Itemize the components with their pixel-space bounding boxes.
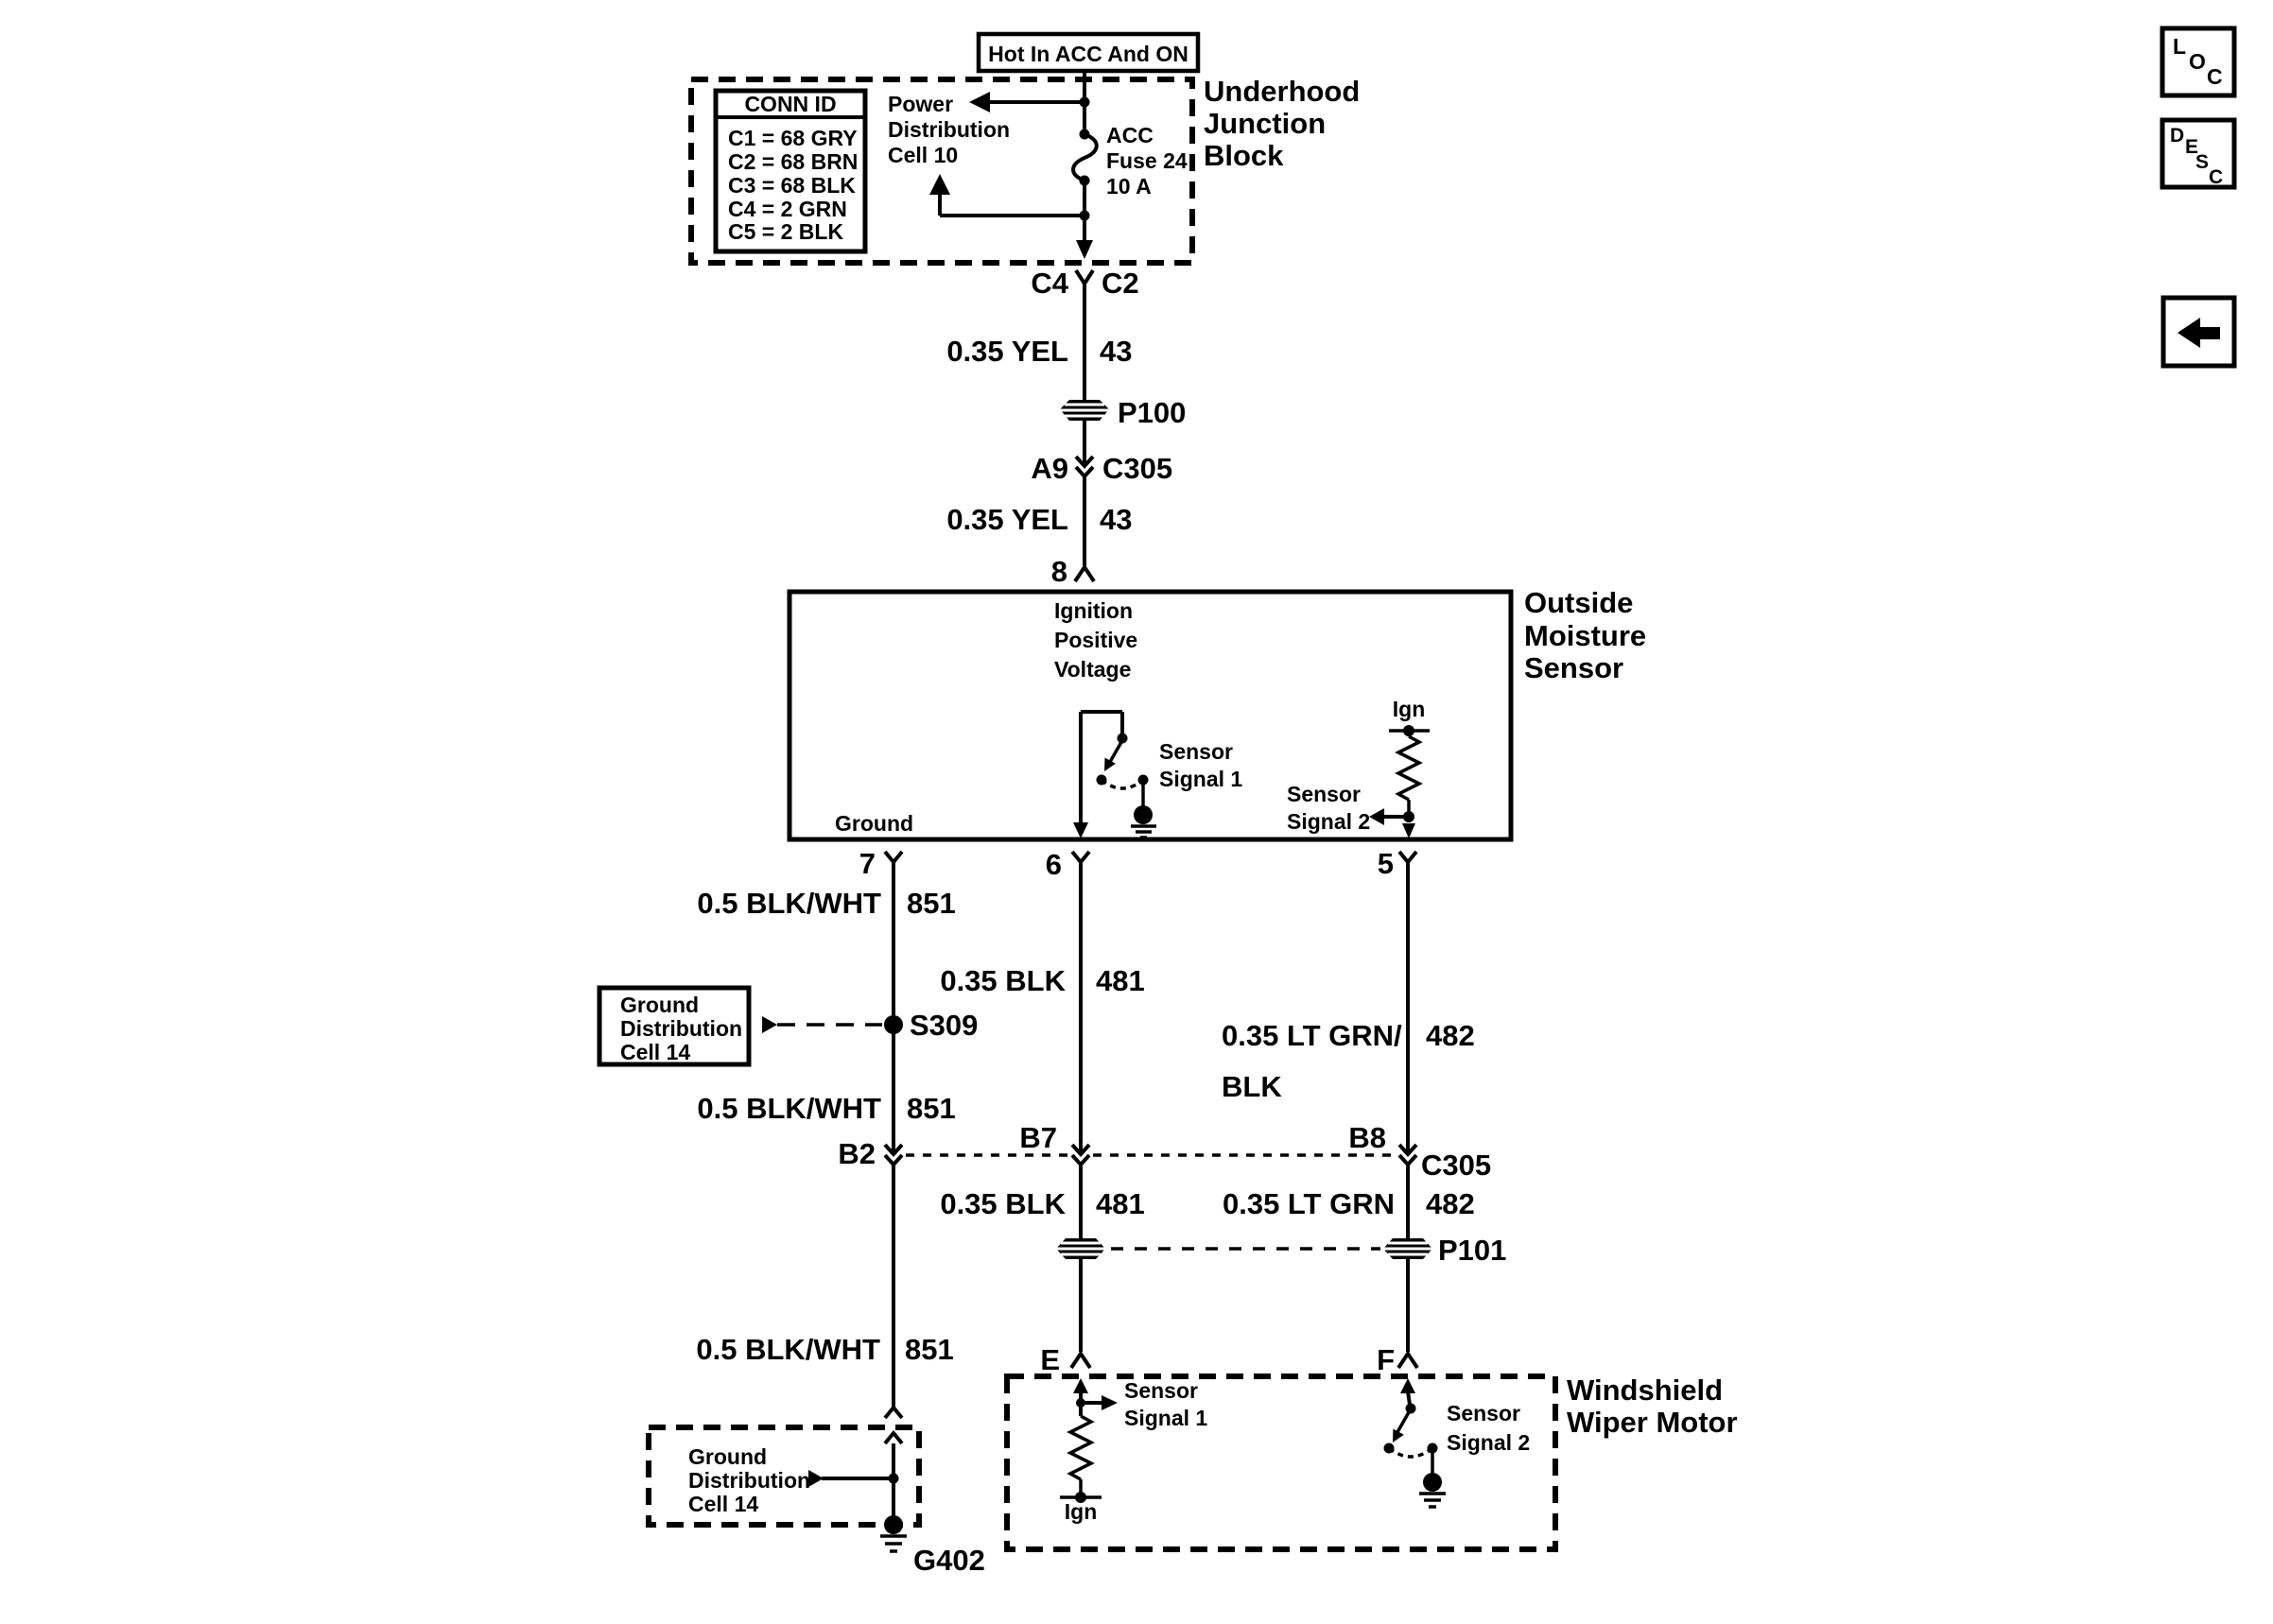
svg-text:B8: B8 [1348, 1121, 1386, 1154]
wire pin6 down [1079, 862, 1083, 1152]
wire C305 to pin 8 [1083, 476, 1086, 566]
svg-text:851: 851 [907, 887, 956, 920]
svg-text:Fuse 24: Fuse 24 [1106, 148, 1188, 173]
svg-text:Signal 2: Signal 2 [1447, 1430, 1530, 1455]
ground G402 [880, 1515, 985, 1577]
svg-text:B2: B2 [838, 1137, 876, 1170]
pin 7 [859, 847, 902, 880]
svg-text:C1 = 68 GRY: C1 = 68 GRY [728, 126, 858, 150]
back arrow icon [2163, 298, 2234, 366]
connector B2 [838, 1137, 902, 1170]
svg-text:Distribution: Distribution [688, 1468, 810, 1493]
svg-text:Cell 10: Cell 10 [888, 143, 958, 167]
svg-text:C: C [2209, 166, 2223, 188]
svg-text:F: F [1377, 1343, 1395, 1376]
svg-text:Signal 2: Signal 2 [1287, 809, 1370, 834]
wire from hot box into junction block [1083, 71, 1086, 134]
wiper sensor signal 1 label [1124, 1378, 1207, 1430]
svg-text:C305: C305 [1102, 452, 1172, 485]
wiper sensor signal 2 circuit [1384, 1378, 1447, 1507]
svg-text:C4: C4 [1031, 267, 1068, 300]
wire label 0.35 BLK 481 [940, 964, 1144, 997]
svg-text:Distribution: Distribution [620, 1016, 742, 1041]
LOC icon [2162, 28, 2234, 95]
wires below C305 row [892, 1165, 895, 1408]
wire fuse to junction [1083, 181, 1086, 216]
wire label 0.5 BLK/WHT 851 second [697, 1092, 955, 1125]
svg-text:B7: B7 [1019, 1121, 1057, 1154]
fuse ACC Fuse 24 10A [1073, 123, 1188, 199]
svg-text:Sensor: Sensor [1124, 1378, 1198, 1403]
svg-text:S: S [2195, 151, 2209, 173]
svg-text:D: D [2170, 125, 2184, 147]
svg-text:G402: G402 [913, 1544, 985, 1577]
wire label 0.35 YEL 43 second [946, 503, 1132, 536]
svg-text:E: E [1040, 1343, 1060, 1376]
svg-text:Ign: Ign [1393, 697, 1426, 721]
wire label 0.5 BLK/WHT 851 third [696, 1333, 953, 1366]
svg-text:8: 8 [1051, 555, 1067, 588]
connector B7 [1019, 1121, 1089, 1165]
svg-text:482: 482 [1426, 1019, 1475, 1052]
svg-text:43: 43 [1100, 503, 1132, 536]
svg-text:Ign: Ign [1065, 1499, 1098, 1524]
arrow to power distribution [969, 92, 1090, 112]
ground distribution cell 14 box lower [649, 1427, 919, 1525]
wire label 0.5 BLK/WHT 851 [697, 887, 955, 920]
svg-text:10 A: 10 A [1106, 174, 1152, 199]
wire label 0.35 LT GRN/ BLK 482 [1222, 1019, 1475, 1103]
svg-text:C4 = 2 GRN: C4 = 2 GRN [728, 197, 847, 221]
svg-text:C305: C305 [1421, 1149, 1491, 1182]
svg-text:Signal 1: Signal 1 [1159, 767, 1242, 791]
wiper sensor signal 2 label [1447, 1401, 1530, 1455]
underhood junction block label [1204, 75, 1360, 172]
wire P100 to C305 [1083, 421, 1086, 464]
grommet P101 left [1056, 1238, 1105, 1259]
svg-text:ACC: ACC [1106, 123, 1154, 147]
windshield wiper motor label [1567, 1373, 1738, 1439]
svg-text:851: 851 [905, 1333, 954, 1366]
svg-text:Positive: Positive [1054, 628, 1137, 652]
svg-text:Sensor: Sensor [1287, 782, 1361, 806]
connector B8 C305 [1348, 1121, 1491, 1182]
svg-text:C2: C2 [1102, 267, 1139, 300]
svg-text:481: 481 [1096, 964, 1145, 997]
pin 5 [1378, 847, 1416, 880]
wire label 0.35 BLK 481 second [940, 1187, 1144, 1220]
svg-text:0.35 YEL: 0.35 YEL [946, 503, 1068, 536]
connector C4/C2 [1031, 267, 1138, 300]
dashed connector line C305 [906, 1153, 1068, 1157]
svg-text:BLK: BLK [1222, 1070, 1282, 1103]
ground distribution cell 14 box upper [599, 988, 749, 1064]
pin E [1040, 1343, 1090, 1376]
svg-text:A9: A9 [1031, 452, 1068, 485]
wire pin5 down [1406, 862, 1410, 1152]
svg-text:Windshield: Windshield [1567, 1373, 1723, 1407]
splice S309 [762, 1009, 978, 1042]
svg-text:6: 6 [1046, 848, 1062, 881]
wiper sensor signal 1 circuit [1060, 1378, 1118, 1524]
svg-text:Ground: Ground [688, 1444, 767, 1469]
sensor signal 1 label [1159, 739, 1242, 791]
svg-text:CONN ID: CONN ID [744, 92, 836, 116]
svg-text:Power: Power [888, 92, 953, 116]
pin F [1377, 1343, 1417, 1376]
svg-text:0.5 BLK/WHT: 0.5 BLK/WHT [697, 887, 881, 920]
svg-text:Underhood: Underhood [1204, 75, 1360, 108]
connector A9/C305 [1031, 452, 1172, 485]
svg-text:C: C [2207, 64, 2223, 89]
up arrow branch to power distribution [929, 174, 1090, 221]
pin 6 [1046, 848, 1089, 881]
svg-text:Block: Block [1204, 139, 1284, 172]
svg-text:0.5 BLK/WHT: 0.5 BLK/WHT [696, 1333, 880, 1366]
switch output arrow to pin 6 [1073, 712, 1088, 838]
wire label 0.35 LT GRN 482 second [1223, 1187, 1475, 1220]
wire exiting junction block with down arrow [1076, 216, 1093, 259]
pin 8 connector [1051, 555, 1094, 588]
svg-text:C3 = 68 BLK: C3 = 68 BLK [728, 173, 856, 198]
CONN ID table [716, 91, 865, 251]
svg-text:Voltage: Voltage [1054, 657, 1131, 682]
svg-text:Moisture: Moisture [1524, 619, 1646, 652]
svg-text:Sensor: Sensor [1524, 651, 1623, 684]
connector inside ground box [885, 1433, 902, 1443]
grommet P100 [1060, 396, 1186, 429]
svg-text:0.35 LT GRN/: 0.35 LT GRN/ [1222, 1019, 1402, 1052]
svg-text:0.35 BLK: 0.35 BLK [940, 964, 1066, 997]
grommet P101 right [1383, 1234, 1506, 1267]
windshield wiper motor dashed box [1007, 1376, 1555, 1549]
svg-text:Sensor: Sensor [1447, 1401, 1520, 1425]
DESC icon [2162, 120, 2234, 188]
svg-text:851: 851 [907, 1092, 956, 1125]
svg-text:O: O [2189, 49, 2206, 74]
svg-text:Hot In ACC And ON: Hot In ACC And ON [988, 42, 1189, 66]
svg-text:481: 481 [1096, 1187, 1145, 1220]
svg-text:Signal 1: Signal 1 [1124, 1406, 1207, 1430]
svg-text:P100: P100 [1118, 396, 1186, 429]
power distribution cell 10 label [888, 92, 1010, 167]
svg-text:0.35 BLK: 0.35 BLK [940, 1187, 1066, 1220]
svg-text:C2 = 68 BRN: C2 = 68 BRN [728, 149, 858, 174]
outside moisture sensor box [789, 592, 1511, 839]
sensor signal 2 arrow [1369, 808, 1415, 838]
svg-text:5: 5 [1378, 847, 1394, 880]
ignition positive voltage label [1054, 598, 1137, 682]
svg-text:Cell 14: Cell 14 [620, 1040, 690, 1064]
svg-text:0.5 BLK/WHT: 0.5 BLK/WHT [697, 1092, 881, 1125]
dashed line between P101 grommets [1111, 1247, 1380, 1251]
svg-text:43: 43 [1100, 335, 1132, 368]
svg-text:Cell 14: Cell 14 [688, 1492, 758, 1516]
underhood junction block dashed box [691, 79, 1192, 263]
svg-text:Ground: Ground [620, 993, 699, 1017]
svg-text:C5 = 2 BLK: C5 = 2 BLK [728, 219, 843, 244]
svg-text:Outside: Outside [1524, 586, 1633, 619]
node Hot In ACC And ON box [979, 34, 1198, 71]
Ign terminal and resistor [1389, 697, 1430, 822]
outside moisture sensor label [1524, 586, 1646, 684]
svg-text:0.35 YEL: 0.35 YEL [946, 335, 1068, 368]
sensor signal 2 label [1287, 782, 1370, 834]
wire pin7 down [892, 862, 895, 1152]
svg-text:P101: P101 [1438, 1234, 1506, 1267]
svg-text:Ground: Ground [835, 811, 913, 836]
svg-text:L: L [2173, 34, 2186, 59]
svg-text:Ignition: Ignition [1054, 598, 1133, 623]
svg-text:S309: S309 [910, 1009, 978, 1042]
connector into ground distribution [885, 1408, 902, 1418]
svg-text:482: 482 [1426, 1187, 1475, 1220]
svg-text:Distribution: Distribution [888, 117, 1010, 142]
switch sensor signal 1 [1081, 712, 1156, 838]
svg-text:7: 7 [859, 847, 876, 880]
wires P101 to E and F [1079, 1259, 1083, 1352]
svg-text:Wiper Motor: Wiper Motor [1567, 1406, 1738, 1439]
wire label 0.35 YEL 43 [946, 335, 1132, 368]
arrow from ground distribution to wire [808, 1470, 899, 1487]
wire C2 to P100 [1083, 284, 1086, 400]
svg-text:0.35 LT GRN: 0.35 LT GRN [1223, 1187, 1395, 1220]
wire to G402 [892, 1443, 895, 1517]
svg-text:Junction: Junction [1204, 107, 1326, 140]
svg-text:Sensor: Sensor [1159, 739, 1233, 764]
